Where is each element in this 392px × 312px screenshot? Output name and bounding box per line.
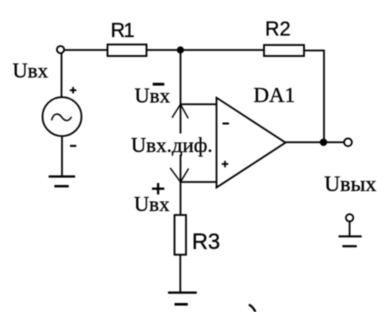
svg-text:DA1: DA1 [254, 83, 296, 107]
svg-text:Uвых: Uвых [324, 171, 376, 196]
svg-text:Uвх: Uвх [134, 192, 170, 216]
svg-text:Uвх: Uвх [13, 59, 49, 83]
svg-text:R1: R1 [111, 20, 135, 42]
svg-text:R3: R3 [192, 229, 220, 254]
svg-text:Uвх.диф.: Uвх.диф. [131, 133, 213, 157]
svg-text:Uвх: Uвх [135, 84, 171, 108]
svg-text:R2: R2 [265, 19, 291, 41]
